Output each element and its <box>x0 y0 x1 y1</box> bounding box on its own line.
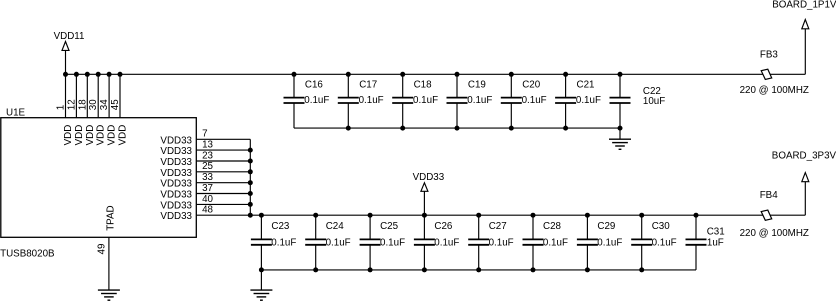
svg-text:VDD: VDD <box>96 125 107 146</box>
svg-text:0.1uF: 0.1uF <box>434 238 459 249</box>
svg-text:0.1uF: 0.1uF <box>359 95 384 106</box>
svg-text:VDD33: VDD33 <box>160 200 192 211</box>
svg-text:VDD33: VDD33 <box>160 146 192 157</box>
svg-text:12: 12 <box>66 99 77 110</box>
svg-text:13: 13 <box>202 140 213 151</box>
svg-text:TPAD: TPAD <box>105 205 116 230</box>
svg-text:0.1uF: 0.1uF <box>380 238 405 249</box>
svg-text:C24: C24 <box>326 221 345 232</box>
svg-text:C21: C21 <box>577 80 595 91</box>
svg-text:C27: C27 <box>489 221 507 232</box>
svg-text:C16: C16 <box>305 80 324 91</box>
svg-text:VDD: VDD <box>63 125 74 146</box>
svg-text:BOARD_3P3V: BOARD_3P3V <box>772 151 836 162</box>
svg-text:C20: C20 <box>522 80 541 91</box>
svg-text:VDD33: VDD33 <box>160 211 192 222</box>
svg-text:0.1uF: 0.1uF <box>413 95 438 106</box>
svg-text:33: 33 <box>202 172 213 183</box>
svg-text:0.1uF: 0.1uF <box>652 238 677 249</box>
svg-text:220 @ 100MHZ: 220 @ 100MHZ <box>740 228 809 239</box>
svg-text:VDD33: VDD33 <box>160 179 192 190</box>
svg-text:220 @ 100MHZ: 220 @ 100MHZ <box>740 85 809 96</box>
svg-text:FB4: FB4 <box>760 190 779 201</box>
svg-text:25: 25 <box>202 161 213 172</box>
svg-text:VDD33: VDD33 <box>160 190 192 201</box>
svg-text:C29: C29 <box>597 221 615 232</box>
svg-text:1: 1 <box>56 105 67 110</box>
svg-text:TUSB8020B: TUSB8020B <box>0 248 55 259</box>
svg-text:0.1uF: 0.1uF <box>597 238 622 249</box>
svg-text:VDD: VDD <box>118 125 129 146</box>
svg-text:0.1uF: 0.1uF <box>326 238 351 249</box>
svg-text:0.1uF: 0.1uF <box>522 95 547 106</box>
svg-text:VDD33: VDD33 <box>160 135 192 146</box>
svg-text:30: 30 <box>88 99 99 110</box>
svg-text:40: 40 <box>202 194 213 205</box>
svg-text:C25: C25 <box>380 221 399 232</box>
svg-text:7: 7 <box>202 129 207 140</box>
svg-text:C23: C23 <box>271 221 290 232</box>
svg-text:18: 18 <box>77 99 88 110</box>
svg-text:C18: C18 <box>414 80 433 91</box>
svg-text:10uF: 10uF <box>643 96 665 107</box>
svg-text:VDD: VDD <box>74 125 85 146</box>
svg-text:48: 48 <box>202 205 213 216</box>
svg-text:1uF: 1uF <box>707 238 724 249</box>
svg-text:C26: C26 <box>434 221 453 232</box>
svg-text:49: 49 <box>97 244 108 255</box>
svg-text:VDD: VDD <box>85 125 96 146</box>
svg-text:34: 34 <box>99 99 110 110</box>
svg-text:0.1uF: 0.1uF <box>543 238 568 249</box>
svg-text:C17: C17 <box>359 80 377 91</box>
svg-text:C30: C30 <box>652 221 671 232</box>
svg-text:C19: C19 <box>468 80 486 91</box>
svg-text:U1E: U1E <box>6 108 26 119</box>
svg-text:VDD33: VDD33 <box>413 172 445 183</box>
svg-text:VDD33: VDD33 <box>160 157 192 168</box>
svg-text:VDD11: VDD11 <box>54 31 85 42</box>
svg-text:0.1uF: 0.1uF <box>467 95 492 106</box>
svg-text:0.1uF: 0.1uF <box>271 238 296 249</box>
svg-text:FB3: FB3 <box>760 50 779 61</box>
svg-text:0.1uF: 0.1uF <box>489 238 514 249</box>
svg-text:0.1uF: 0.1uF <box>576 95 601 106</box>
svg-text:45: 45 <box>110 99 121 110</box>
svg-text:C31: C31 <box>707 227 725 238</box>
svg-text:37: 37 <box>202 183 213 194</box>
svg-text:BOARD_1P1V: BOARD_1P1V <box>772 0 836 10</box>
svg-text:VDD33: VDD33 <box>160 168 192 179</box>
svg-text:C28: C28 <box>543 221 562 232</box>
svg-text:23: 23 <box>202 150 213 161</box>
svg-text:0.1uF: 0.1uF <box>304 95 329 106</box>
svg-text:VDD: VDD <box>107 125 118 146</box>
